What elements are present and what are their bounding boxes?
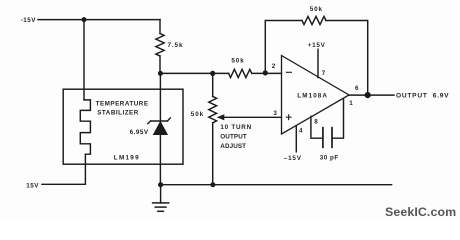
svg-text:LM199: LM199 [114,155,140,162]
svg-text:–15V: –15V [284,155,302,162]
wiper arrow wire to pin 3 [223,116,282,118]
op-amp minus sign [286,71,291,73]
wire heater bottom to 15V [42,154,85,184]
svg-text:6: 6 [355,85,359,92]
svg-text:7.5k: 7.5k [168,42,184,49]
svg-text:OUTPUT 6.9V: OUTPUT 6.9V [396,93,449,100]
pin 7 supply wire +15V [317,49,319,77]
svg-text:7: 7 [322,70,326,77]
svg-text:TEMPERATURE: TEMPERATURE [96,101,149,108]
svg-text:50k: 50k [191,111,204,118]
node inverting input junction [263,70,268,75]
resistor R3 50k feedback [302,16,326,24]
heater element LM199 [80,100,90,154]
svg-text:30 pF: 30 pF [320,155,339,162]
svg-text:4: 4 [299,127,303,134]
node output junction [365,92,371,98]
svg-text:LM108A: LM108A [297,93,328,100]
svg-text:3: 3 [273,110,277,117]
svg-text:50k: 50k [310,6,323,13]
svg-text:2: 2 [272,63,276,70]
wire node to 50k input resistor [160,72,228,74]
wire feedback right vertical to output node [326,21,368,96]
node junction -15V/heater [82,17,87,22]
svg-text:8: 8 [314,118,318,125]
svg-text:6.95V: 6.95V [130,129,149,136]
resistor R1 7.5k [156,34,164,57]
wire R2 to op-amp pin 2 [252,72,282,74]
node pot top junction [210,71,215,76]
pin 4 supply wire -15V [295,127,297,152]
box temperature stabilizer LM199 [63,89,183,164]
op-amp plus sign [286,115,291,120]
potentiometer R4 50k top lead [212,73,214,96]
svg-text:1: 1 [349,100,353,107]
svg-text:-15V: -15V [21,17,37,24]
potentiometer R4 bottom lead [212,123,214,185]
pin 8 wire to capacitor [311,116,323,138]
wire zener bottom lead to ground rail [159,135,161,185]
wire capacitor to pin 1 [332,99,344,139]
wiper arrowhead [217,114,225,120]
wire from -15V rail down to heater [83,20,85,100]
node pot bottom junction [210,182,215,187]
wire zener top lead [159,73,161,121]
svg-text:ADJUST: ADJUST [220,143,246,150]
node zener/R1 junction [158,71,163,76]
wire ground rail bottom [161,184,392,186]
svg-text:OUTPUT: OUTPUT [220,134,247,141]
svg-text:10 TURN: 10 TURN [220,124,252,131]
potentiometer R4 50k element [209,96,217,122]
wire -15V rail top [38,19,160,21]
resistor R2 50k input [229,69,252,77]
ground symbol [153,185,169,212]
node zener/ground junction [158,182,163,187]
svg-text:15V: 15V [26,183,39,190]
op-amp U1 LM108A triangle [282,56,350,135]
diode D1 zener 6.95V [148,118,171,135]
wire feedback left vertical [265,21,302,73]
wire output from pin 6 [349,94,394,96]
svg-text:+15V: +15V [308,42,326,49]
wire top rail corner down to R1 [159,20,161,34]
svg-text:SeekIC.com: SeekIC.com [385,205,456,219]
wire R1 bottom to node [159,56,161,73]
svg-text:STABILIZER: STABILIZER [97,109,139,116]
svg-text:50k: 50k [231,58,244,65]
capacitor C1 30pF [323,128,332,148]
